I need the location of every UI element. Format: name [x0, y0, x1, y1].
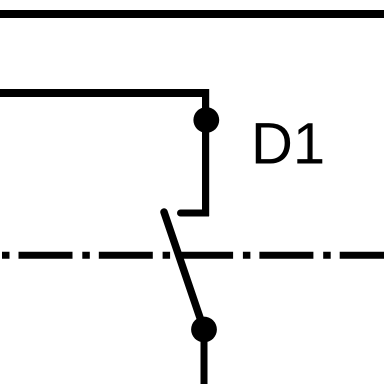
svg-text:D1: D1	[251, 111, 325, 176]
busbar B (top horizontal line)	[0, 10, 384, 18]
disconnector D1 moving arm (open)	[164, 212, 204, 330]
wire: vertical to bottom edge	[201, 330, 208, 384]
node: junction dot at arm pivot	[191, 317, 217, 343]
disconnector D1 fixed-contact bar	[181, 210, 210, 217]
wire: horizontal feeder from left edge to corner	[0, 89, 209, 97]
node: junction dot on vertical wire	[193, 107, 219, 133]
boundary centerline (dash-dot)	[0, 252, 384, 259]
disconnector D1 fixed-contact bar rounded tip	[177, 210, 184, 217]
wire: vertical drop to disconnector D1 fixed contact	[202, 89, 209, 216]
